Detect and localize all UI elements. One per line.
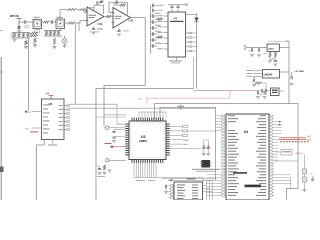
pin box CN2 left 5 [171, 197, 174, 199]
wire C20 up [251, 47, 253, 50]
wire bus top U4 box [155, 104, 298, 201]
capacitor column C12 [153, 26, 154, 30]
label column 4 [155, 36, 161, 39]
label column 0 [155, 12, 161, 15]
label U7 left pin 6 [158, 42, 163, 45]
svg-text:GM862: GM862 [139, 140, 148, 143]
wire red net drop [146, 98, 148, 103]
label below U6 [48, 144, 57, 147]
ground C22 [274, 64, 278, 66]
wire U2 riser rail [139, 111, 166, 113]
wire U7 pins bus down [196, 33, 198, 89]
test point TP2 [106, 159, 109, 162]
wire column stub r 2 [154, 27, 157, 29]
filter T2 inner [57, 21, 63, 27]
label CN2 row r 4 [192, 192, 198, 195]
connector pin marker a [244, 45, 246, 47]
wire U7 top pin b [177, 9, 179, 13]
wire U6 pin1 drop [117, 104, 125, 124]
pin box CN2 left 4 [171, 194, 174, 196]
wire RA4 down [27, 38, 29, 111]
wire U7 right pin ext 3 [192, 41, 197, 43]
wire CN2 right 2 [203, 188, 210, 190]
wire C32 up [99, 166, 101, 169]
zener D3 [303, 177, 307, 182]
wire C30 pin [114, 129, 125, 131]
label U7 left pin 5 [158, 36, 163, 39]
wire zener column bottom [304, 182, 306, 189]
wire C31 stub [113, 136, 115, 139]
wire U2 right pin ext low [170, 148, 201, 150]
wire column stub r 1 [154, 21, 157, 23]
IC U4 left pin boxes [222, 115, 225, 117]
ground below C8 [117, 34, 121, 36]
IC U4 left pin names [228, 114, 235, 117]
wire U2 right pin ext 5 [170, 143, 183, 145]
resistor RD3 [53, 38, 55, 45]
wire rail A top [12, 32, 30, 34]
label right of U2 [183, 139, 189, 142]
svg-text:LM2940: LM2940 [264, 74, 273, 77]
label U2 left net [105, 142, 112, 145]
resistor R22 [255, 82, 262, 84]
resistor R21 [274, 52, 276, 59]
resistor RC2 [49, 31, 51, 37]
net dot C40 [203, 145, 204, 146]
svg-text:U11: U11 [129, 19, 134, 23]
capacitor C26 [264, 91, 265, 95]
wire U6 right pin 2 [64, 109, 67, 111]
wire U2 top pin risers [138, 112, 140, 118]
wire U10 out [279, 90, 285, 92]
wire bus mid-left [104, 86, 145, 127]
resistor R3 [68, 22, 75, 24]
wire column stub 5 [151, 45, 153, 47]
wire column spine [150, 5, 152, 54]
wire inv input [84, 12, 87, 14]
svg-text:RXD: RXD [27, 112, 32, 114]
wire U4 grid v3 [212, 181, 214, 201]
resistor R5 [67, 8, 77, 10]
capacitor C23 [254, 79, 255, 83]
label U6 right pin name 3 [59, 112, 64, 115]
ground C41 [206, 154, 210, 156]
wire U7 right pin 3 [186, 41, 189, 43]
wire parallel above QFP [104, 114, 126, 116]
wire U2 right pin ext 3 [170, 134, 183, 136]
label U6 pin name 6 [43, 124, 48, 127]
capacitor C6 [92, 29, 95, 30]
ground U2 area [108, 170, 112, 172]
wire U7 right pin ext 1 [192, 32, 197, 34]
svg-text:LM317: LM317 [268, 48, 275, 50]
wire fb drop2 [113, 2, 115, 5]
pin box CN2 left 2 [171, 188, 174, 190]
label column top1 [159, 4, 164, 7]
label U6 pin name 7 [43, 128, 50, 131]
wire U4 left bottom wires [207, 174, 222, 176]
wire bus second [160, 107, 216, 180]
label under drop bus a [136, 179, 145, 182]
svg-text:Y2: Y2 [310, 174, 312, 176]
label CN2 row 3 [177, 189, 185, 192]
filter T2 core dot [59, 23, 61, 25]
wire C23 up [253, 76, 255, 78]
wire U6 right pin 1 [64, 105, 67, 107]
resistor RA3 [22, 33, 24, 39]
capacitor C24 [291, 76, 292, 80]
ground below RD3 [53, 46, 57, 48]
label CN2 row r 1 [192, 184, 198, 187]
svg-text:MPX IN: MPX IN [10, 14, 19, 18]
wire out of U9 [279, 47, 289, 49]
op-amp U11 input marks [112, 13, 115, 23]
pin box CN2 left 1 [171, 185, 174, 187]
wire U4 to USB box [274, 151, 281, 153]
component box R7 [90, 8, 94, 12]
wire U4 grid v1 [206, 181, 208, 201]
capacitor C21 [259, 48, 260, 52]
wire CN2 left stub 3 [169, 191, 171, 193]
pin box CN2 left 3 [171, 191, 174, 193]
capacitor C22 [274, 61, 277, 62]
ground C23 [252, 85, 256, 87]
wire T2 bottom stub [59, 28, 61, 30]
wire zener column top [304, 155, 306, 170]
wire module box top [96, 116, 126, 118]
IC U4 right pin stubs [269, 115, 274, 117]
wire caps rail [204, 139, 209, 141]
inductor L1 [24, 25, 29, 27]
wire column stub 1 [151, 21, 153, 23]
wire U7 left pin 2 [164, 21, 169, 23]
wire U4 grid v2 [209, 181, 211, 201]
sheet border tick upper [0, 30, 3, 32]
label USB detect [283, 151, 291, 152]
wire Q1 down [64, 44, 66, 46]
wire U7 bottom pin [176, 57, 178, 61]
wire U7 right pin 4 [186, 46, 189, 48]
label under drop bus b [148, 179, 155, 182]
label U7 left pin 1 [158, 14, 163, 17]
label mid bottom row2 [196, 170, 216, 173]
wire U7 to D1 [196, 13, 198, 17]
pin number box U7 r5 [189, 50, 192, 52]
ground C40 [202, 154, 206, 156]
wire rail B top [44, 30, 62, 32]
resistor RA4 [27, 33, 29, 39]
wire U12 output [104, 16, 106, 18]
pin number box U6 r3 [67, 113, 70, 115]
ground C26 [263, 97, 267, 99]
wire C6 stub [93, 27, 95, 29]
wire red to U2 [113, 146, 125, 148]
wire red net [146, 90, 260, 98]
wire U7 left pin 7 [164, 48, 169, 50]
capacitor C15 [170, 6, 173, 7]
capacitor C41 [207, 148, 210, 149]
sheet border tick [0, 71, 3, 73]
capacitor C50 [312, 178, 313, 182]
wire U6 pin1 long [70, 103, 117, 105]
wire C1 to T1 [26, 21, 33, 23]
op-amp U11 [113, 8, 131, 29]
wire U8 input 3 [253, 75, 263, 77]
IC U2 body [129, 121, 166, 160]
wire feedback to output [103, 5, 105, 14]
label U8 input 2 [247, 72, 253, 75]
filter T1 hatch [34, 28, 40, 30]
pin number box U6 r4 [67, 117, 70, 119]
label column 2 [155, 24, 161, 27]
wire column stub 4 [151, 39, 153, 41]
wire CN2 left stub 2 [169, 188, 171, 190]
wire U7 top rail [168, 4, 185, 6]
transistor Q1 [62, 38, 67, 43]
wire U2 right long [188, 130, 216, 132]
pin number box U6 r1 [67, 105, 70, 107]
ground C60 [164, 192, 168, 194]
wire U11 feedback left [108, 2, 110, 12]
wire U7 right pin 2 [186, 37, 189, 39]
resistor R6 [79, 8, 89, 10]
wire U7 bottom drop [193, 57, 195, 89]
svg-text:U7: U7 [174, 16, 178, 20]
wire column top stub1 [154, 5, 158, 7]
wire cap column a [203, 140, 205, 145]
IC U2 inner border [131, 123, 164, 158]
wire C40 down [203, 149, 205, 153]
capacitor C32 [98, 169, 101, 170]
IC U5 pins [200, 162, 212, 166]
wire U4 left top wires [216, 115, 222, 117]
resistor RB1 [31, 32, 39, 34]
resistor R8 [100, 1, 104, 3]
label U7 left pin 7 [158, 47, 163, 50]
label U6 pin name 8 [43, 132, 48, 135]
IC U6 body [42, 99, 65, 140]
component network RN1 [183, 126, 188, 128]
label U8 input 3 [247, 75, 253, 78]
ground R30 [103, 173, 107, 175]
ground R20 [268, 61, 272, 63]
IC U4 right pin boxes [269, 115, 272, 117]
svg-text:U6: U6 [49, 102, 53, 106]
wire Q1 up [64, 36, 66, 38]
wire column stub 2 [151, 27, 153, 29]
label column 3 [155, 30, 161, 33]
label above T1 [34, 16, 40, 19]
resistor R30 [103, 165, 105, 171]
label U6 left small [30, 131, 38, 134]
ground at J1 [17, 31, 21, 33]
wire reg right drop [288, 41, 290, 104]
wire column stub r 3 [154, 33, 157, 35]
label CN2 row r 5 [192, 194, 198, 197]
op-amp U12 text row2 [89, 16, 95, 19]
label C28 [264, 93, 268, 96]
label C27 [259, 93, 263, 96]
capacitor C7 [116, 0, 117, 4]
ground C25 [256, 97, 260, 99]
wire cluster link [30, 33, 32, 36]
wire reg top stub [285, 40, 289, 42]
wire U6 pin2 long [70, 107, 216, 109]
label U6 right pin name 1 [59, 104, 64, 107]
wire U6 right pin 6 [64, 125, 67, 127]
wire U4 br vertical [290, 178, 292, 189]
wire C50 up [312, 176, 314, 178]
pin number box U6 r2 [67, 109, 70, 111]
op-amp U12 text row1 [89, 14, 97, 17]
label U6 right pin name 7 [59, 128, 64, 131]
filter T1 inner [34, 21, 40, 27]
net marker U4 b [279, 124, 280, 125]
capacitor C8 [117, 31, 120, 32]
wire U7 left pin 5 [164, 37, 169, 39]
label CN2 row r 6 [192, 197, 198, 200]
wire U6 TX [32, 127, 42, 129]
label CN2 row r 2 [192, 186, 198, 189]
label below U12 row2 [90, 31, 99, 34]
capacitor column C14 [153, 38, 154, 42]
wire C2 to T2 [53, 21, 56, 23]
wire U6 right pin 7 [64, 129, 67, 131]
crystal Y1 label2 [179, 107, 184, 110]
IC U4 left pin stubs [225, 115, 226, 117]
wire R22 drop [265, 83, 267, 91]
wire U7 right pin ext 4 [192, 46, 197, 48]
wire rail B bottom [44, 35, 62, 37]
wire U7 top rail drop b [177, 5, 179, 6]
wire U7 top rail drop a [171, 5, 173, 6]
net dot C41 [208, 145, 209, 146]
capacitor C28 [265, 89, 266, 93]
pin number box U7 r3 [189, 41, 192, 43]
svg-text:U2: U2 [141, 135, 146, 139]
wire U6 right pin 4 [64, 117, 67, 119]
wire column top stub2 [154, 10, 158, 12]
pin number box U7 r1 [189, 32, 192, 34]
wire cap column b [207, 140, 209, 145]
ground C31 [112, 141, 116, 143]
IC U5 body [202, 160, 211, 168]
op-amp U12 input marks [86, 12, 89, 21]
resistor R9 [106, 15, 112, 17]
IC U2 right pins [166, 124, 170, 125]
IC U2 bottom pins [132, 160, 133, 163]
wire column stub r 5 [154, 45, 157, 47]
wire T2 to R3 [65, 22, 68, 24]
wire +5V to U6 [50, 96, 52, 100]
label below U7 row1 [169, 60, 182, 63]
label U6 pin name 5 [43, 120, 50, 123]
wire fb to output [127, 2, 129, 14]
wire C41 down [207, 149, 209, 153]
wire TP2 to U2 [109, 159, 126, 161]
resistor RD2 [25, 41, 27, 46]
capacitor C60 [166, 185, 167, 189]
IC U7 body [168, 12, 186, 57]
wire R9 to U11 [112, 16, 114, 18]
capacitor C27 [262, 89, 263, 93]
wire J1 to C1 [19, 21, 24, 23]
wire R5 to R6 [77, 9, 79, 11]
wire rail A bottom [12, 37, 30, 39]
op-amp U11 text row2 [115, 17, 121, 20]
capacitor column C10 [153, 14, 154, 18]
resistor RD1 [34, 38, 36, 44]
label U6 pin name 3 [43, 112, 50, 115]
wire feedback top [94, 4, 104, 6]
wire U8 input 2 [253, 73, 263, 75]
connector pin marker b [244, 48, 246, 50]
capacitor C40 [202, 148, 205, 149]
wire C31 pin [114, 136, 125, 138]
label U4 vendor [233, 172, 247, 174]
regulator U10 body [271, 88, 280, 96]
wire column stub r 4 [154, 39, 157, 41]
label below U12 [97, 28, 103, 31]
label U4 bottom bold [245, 185, 262, 188]
ground below Q1 [63, 46, 67, 48]
wire U2 bottom pin drops [133, 163, 135, 178]
wire U7 left pin 3 [164, 26, 169, 28]
resistor R10 [120, 4, 126, 6]
wire U2 right pin ext 2 [170, 130, 183, 132]
capacitor C25 [258, 91, 259, 95]
op-amp U12 [87, 7, 104, 26]
net marker U4 a [279, 121, 280, 122]
resistor RB2 [31, 35, 39, 37]
wire U7 right pin ext 5 [192, 50, 197, 52]
wire R10 link [114, 4, 120, 6]
filter T2 hatch [57, 27, 63, 29]
ground below RD2 [24, 46, 28, 48]
label CN2 row 1 [177, 184, 185, 187]
trimmer under T1 [34, 30, 40, 32]
wire CN2 left stub 4 [169, 194, 171, 196]
net marker U6 RX [25, 111, 27, 113]
wire U8 input 1 [253, 70, 263, 72]
wire zener link [304, 174, 306, 177]
svg-text:TXD: TXD [25, 129, 29, 131]
IC U4 right pin names [260, 114, 266, 117]
capacitor column Ctop2 [153, 9, 154, 13]
wire U4 right rail [274, 160, 298, 162]
wire U6 right pin 5 [64, 121, 67, 123]
wire inv input up [83, 10, 85, 13]
wire feedback up [93, 5, 95, 9]
wire U4 bottom right wires [274, 174, 291, 176]
label U6 right pin name 2 [59, 108, 64, 111]
label U6 pin name 1 [43, 104, 50, 107]
label U6 right pin name 6 [59, 124, 64, 127]
wire CN2 left stub 5 [169, 197, 171, 199]
component network RN2 [183, 130, 188, 132]
label mid bottom row1 [192, 168, 220, 171]
label column 5 [155, 42, 161, 45]
resistor RA1 [13, 33, 15, 39]
sheet border left edge [0, 57, 2, 200]
wire U6 bottom pin [52, 140, 54, 144]
wire U11 inv input [109, 12, 113, 14]
wire U8 output [280, 71, 290, 73]
wire C24 up [291, 72, 293, 76]
label U8 input 1 [247, 69, 253, 72]
ground C21 [257, 55, 261, 57]
capacitor C5 [97, 1, 98, 5]
